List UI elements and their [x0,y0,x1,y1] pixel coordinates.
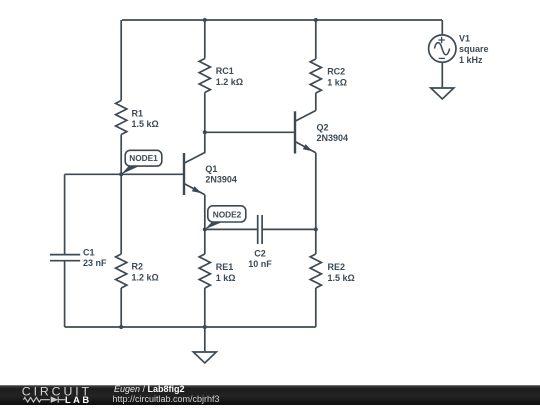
svg-text:RC1: RC1 [216,66,234,76]
svg-text:1 kΩ: 1 kΩ [216,273,236,283]
svg-text:1 kΩ: 1 kΩ [327,77,347,87]
svg-text:2N3904: 2N3904 [205,175,237,185]
svg-text:C2: C2 [254,249,266,259]
svg-text:square: square [459,44,489,54]
svg-text:C1: C1 [83,248,95,258]
svg-text:1.2 kΩ: 1.2 kΩ [132,272,159,282]
svg-text:R1: R1 [132,109,144,119]
svg-text:Q2: Q2 [317,123,329,133]
svg-text:RC2: RC2 [327,67,345,77]
svg-text:RE1: RE1 [216,262,234,272]
svg-text:2N3904: 2N3904 [317,133,349,143]
svg-text:V1: V1 [459,34,470,44]
svg-text:RE2: RE2 [328,262,346,272]
svg-text:1.5 kΩ: 1.5 kΩ [132,119,159,129]
svg-text:Q1: Q1 [205,164,217,174]
svg-text:1 kHz: 1 kHz [459,55,483,65]
svg-text:http://circuitlab.com/cbjrhf3: http://circuitlab.com/cbjrhf3 [113,394,220,404]
svg-text:LAB: LAB [65,394,92,404]
svg-text:NODE1: NODE1 [129,153,158,163]
svg-text:1.2 kΩ: 1.2 kΩ [216,77,243,87]
svg-text:R2: R2 [132,262,144,272]
svg-text:Eugen / Lab8fig2: Eugen / Lab8fig2 [114,385,185,394]
svg-text:1.5 kΩ: 1.5 kΩ [328,273,355,283]
svg-text:10 nF: 10 nF [248,259,272,269]
svg-text:NODE2: NODE2 [213,210,242,220]
svg-text:23 nF: 23 nF [83,258,107,268]
